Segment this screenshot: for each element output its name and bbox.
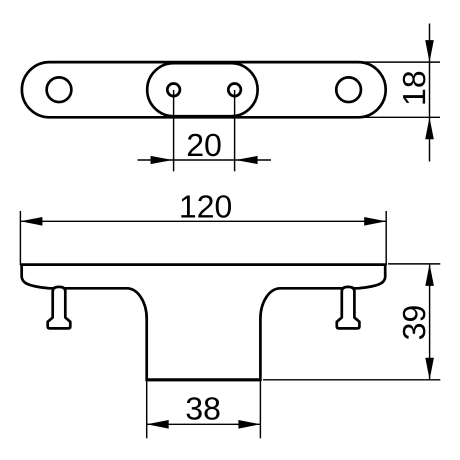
dim 39 bottom arrow xyxy=(425,358,434,380)
dim 20 dimension line xyxy=(138,159,272,161)
dim 20 right arrow xyxy=(236,156,258,164)
front view centre block bottom edge (heavier) xyxy=(147,378,261,381)
dim 38 left arrow xyxy=(147,420,169,429)
dim text 38 xyxy=(187,397,220,420)
dim text 39 (rotated) xyxy=(403,306,426,339)
right end hole xyxy=(336,77,361,102)
dim 120 left extension line xyxy=(19,211,21,265)
dim 120 right extension line xyxy=(385,211,387,265)
dim text 120 xyxy=(181,195,231,218)
dim 120 left arrow xyxy=(20,217,42,226)
dim text 18 (rotated) xyxy=(403,72,426,104)
dim 38 dimension line xyxy=(147,423,261,425)
dim 20 right leader/extension line xyxy=(234,90,236,171)
dim 38 right extension line xyxy=(259,381,261,438)
dim 20 left leader/extension line xyxy=(173,90,175,171)
dim 39 bottom extension line xyxy=(263,379,440,381)
dim text 20 xyxy=(188,134,221,157)
dim 38 left extension line xyxy=(146,381,148,438)
dim 18 bottom arrow xyxy=(425,117,434,139)
dim 39 dimension line xyxy=(429,264,431,380)
dim 39 top arrow xyxy=(425,264,434,286)
dim 120 dimension line xyxy=(20,220,386,222)
left small hole xyxy=(167,84,180,97)
plan view outer stadium outline xyxy=(22,62,386,117)
left peg xyxy=(48,287,71,329)
dim 18 bottom extension line xyxy=(362,116,440,118)
dim 120 right arrow xyxy=(364,217,386,226)
dim 39 top extension line xyxy=(388,263,440,265)
left end hole xyxy=(47,77,72,102)
dim 18 dimension line xyxy=(429,24,431,162)
dim 18 top extension line xyxy=(362,61,440,63)
dim 20 left arrow xyxy=(151,156,173,164)
right small hole xyxy=(228,84,241,97)
front view body outline (plate + centre block) xyxy=(22,265,386,380)
dim 18 top arrow xyxy=(425,40,434,62)
dim 38 right arrow xyxy=(238,420,260,429)
right peg xyxy=(337,287,360,329)
plan view inner rounded boss outline xyxy=(147,63,257,116)
